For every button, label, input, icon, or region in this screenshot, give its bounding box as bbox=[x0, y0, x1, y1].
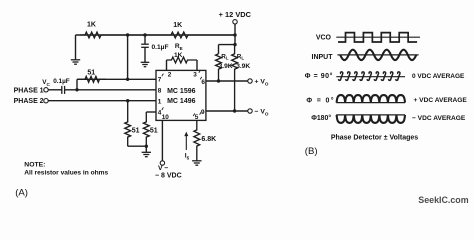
wire pin7-line drop to phase1 bbox=[76, 79, 78, 90]
pin tick 4 bbox=[162, 107, 164, 110]
waveform phi=0 arches bbox=[337, 95, 405, 103]
svg-text:1K: 1K bbox=[174, 52, 183, 59]
svg-text:All resistor values in ohms: All resistor values in ohms bbox=[24, 170, 108, 177]
waveform VCO square wave bbox=[338, 33, 417, 42]
pin tick 3 bbox=[199, 70, 201, 73]
svg-text:+ VDC AVERAGE: + VDC AVERAGE bbox=[414, 97, 468, 104]
svg-text:51: 51 bbox=[132, 127, 140, 134]
waveform axis phi90 bbox=[336, 76, 405, 78]
svg-text:Φ = 0°: Φ = 0° bbox=[306, 96, 335, 104]
current arrow I5 bbox=[185, 135, 187, 151]
svg-text:MC 1496: MC 1496 bbox=[167, 98, 196, 105]
svg-text:1: 1 bbox=[158, 98, 162, 105]
ground (6.8K) bbox=[192, 160, 201, 162]
svg-text:(A): (A) bbox=[15, 187, 28, 198]
svg-text:51: 51 bbox=[150, 127, 158, 134]
svg-text:7: 7 bbox=[158, 76, 162, 83]
svg-text:INPUT: INPUT bbox=[312, 54, 334, 61]
wire top +12V bias rail bbox=[76, 34, 236, 36]
pin tick 7 bbox=[162, 74, 164, 77]
node rail-to-pin7 junction bbox=[126, 33, 129, 36]
waveform INPUT sine bbox=[340, 50, 416, 60]
wire rail to pin7 line bbox=[127, 35, 129, 79]
svg-text:(B): (B) bbox=[305, 146, 318, 157]
capacitor C2 0.1µF (bypass) bbox=[144, 35, 146, 44]
terminal PHASE 1 bbox=[44, 88, 48, 92]
resistor 51 (pin1 bias) bbox=[125, 101, 131, 147]
svg-text:− 8 VDC: − 8 VDC bbox=[155, 173, 182, 180]
pin tick 5 bbox=[193, 113, 195, 116]
svg-text:PHASE 2: PHASE 2 bbox=[14, 98, 44, 105]
svg-text:0.1µF: 0.1µF bbox=[53, 78, 70, 85]
wire phase2 to pin1 bbox=[48, 100, 156, 102]
resistor RL 3.9K (right) bbox=[232, 45, 238, 111]
svg-text:0.1µF: 0.1µF bbox=[152, 44, 169, 51]
svg-text:51: 51 bbox=[87, 70, 95, 77]
node RL-right output junction bbox=[233, 109, 236, 112]
resistor 51 (pin7) bbox=[77, 76, 106, 82]
waveform phi=180 scallops bbox=[337, 115, 405, 123]
svg-text:5: 5 bbox=[195, 114, 199, 121]
svg-text:0 VDC AVERAGE: 0 VDC AVERAGE bbox=[412, 73, 465, 80]
capacitor C1 0.1µF (series) bbox=[48, 89, 61, 91]
waveform axis INPUT bbox=[337, 54, 418, 56]
pin tick 6 bbox=[200, 77, 202, 80]
svg-text:1K: 1K bbox=[87, 22, 96, 29]
op-amp U1 MC1596/MC1496 box bbox=[156, 70, 206, 120]
svg-text:V −: V − bbox=[158, 165, 168, 172]
svg-text:− VDC AVERAGE: − VDC AVERAGE bbox=[412, 115, 466, 122]
resistor RE 1K bbox=[167, 57, 198, 63]
wire +12 drop bbox=[234, 24, 236, 45]
svg-text:9: 9 bbox=[201, 109, 205, 116]
terminal -Vo bbox=[248, 109, 252, 113]
node phase2-51 junction bbox=[126, 99, 129, 102]
wire pin7 bias line bbox=[77, 78, 156, 80]
terminal +Vo bbox=[248, 79, 252, 83]
resistor RL 3.9K (left) bbox=[216, 54, 222, 81]
svg-text:3.9K: 3.9K bbox=[236, 63, 250, 70]
svg-text:SeekIC.com: SeekIC.com bbox=[418, 195, 468, 205]
node +12 rail junction bbox=[233, 33, 236, 36]
waveform phi=90 chopped bbox=[338, 72, 400, 81]
waveform axis phi0 bbox=[336, 102, 405, 104]
resistor 1K (left bias) bbox=[80, 32, 106, 38]
resistor 6.8K (pin5) bbox=[194, 120, 200, 160]
svg-text:8: 8 bbox=[158, 88, 162, 95]
wire pin10 to V- bbox=[161, 120, 163, 160]
svg-text:Φ = 90°: Φ = 90° bbox=[305, 72, 333, 80]
svg-text:VCO: VCO bbox=[316, 35, 332, 42]
resistor 51 (pin4 bias) bbox=[143, 112, 149, 146]
pin tick 9 bbox=[200, 112, 202, 115]
wire pin6 to +Vo bbox=[206, 80, 248, 82]
svg-text:+ 12 VDC: + 12 VDC bbox=[219, 10, 252, 19]
terminal +12 VDC bbox=[233, 20, 237, 24]
ground (51 resistors) bbox=[142, 151, 151, 153]
ground (bypass cap) bbox=[141, 61, 150, 63]
node RL split junction bbox=[233, 43, 236, 46]
node rail-to-C2 junction bbox=[143, 33, 146, 36]
svg-text:PHASE 1: PHASE 1 bbox=[14, 87, 44, 94]
waveform axis VCO bbox=[336, 36, 420, 38]
wire RL branch left bbox=[219, 44, 236, 46]
svg-text:MC 1596: MC 1596 bbox=[167, 88, 196, 95]
terminal PHASE 2 bbox=[44, 99, 48, 103]
svg-text:3: 3 bbox=[193, 72, 197, 79]
svg-text:2: 2 bbox=[168, 72, 172, 79]
node 51s ground junction bbox=[145, 145, 148, 148]
node pin7 bias junction bbox=[126, 78, 129, 81]
wire pin3 stub bbox=[196, 60, 198, 70]
wire rail left-end drop bbox=[75, 35, 77, 60]
resistor 1K (right bias) bbox=[106, 32, 235, 38]
wire ground stem (51s) bbox=[145, 146, 147, 152]
wire pin4 stub bbox=[146, 111, 156, 113]
svg-text:6: 6 bbox=[201, 79, 205, 86]
ground (rail left end) bbox=[71, 59, 80, 61]
terminal V- bbox=[160, 161, 164, 165]
svg-text:6.8K: 6.8K bbox=[201, 136, 216, 143]
wire pin9 to -Vo bbox=[206, 110, 248, 112]
wire phase1 to pin8 bbox=[65, 89, 156, 91]
node pin7-51 to phase1 junction bbox=[75, 88, 78, 91]
waveform axis phi180 bbox=[336, 114, 405, 116]
svg-text:Phase Detector ± Voltages: Phase Detector ± Voltages bbox=[331, 135, 418, 142]
wire 51s bottom tie bbox=[128, 145, 147, 147]
svg-text:NOTE:: NOTE: bbox=[24, 161, 45, 168]
svg-text:1K: 1K bbox=[173, 22, 182, 29]
svg-text:3.9K: 3.9K bbox=[219, 63, 233, 70]
svg-text:10: 10 bbox=[162, 114, 170, 121]
wire pin2 stub bbox=[166, 60, 168, 70]
node RL-left output junction bbox=[217, 79, 220, 82]
svg-text:Φ180°: Φ180° bbox=[311, 114, 331, 122]
